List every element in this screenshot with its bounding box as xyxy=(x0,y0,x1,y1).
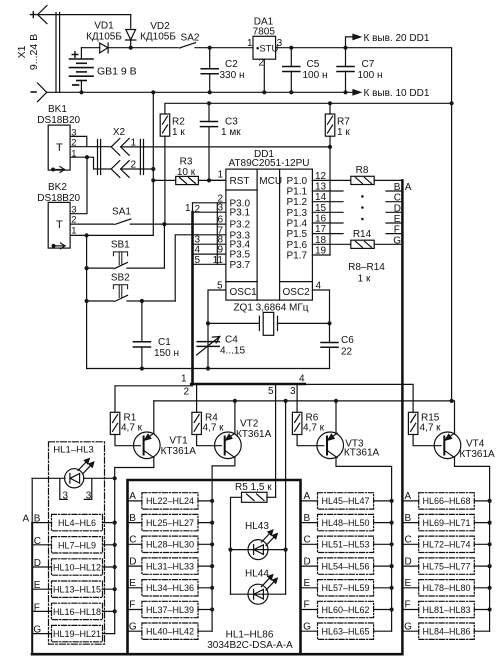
svg-text:4...15: 4...15 xyxy=(220,346,245,357)
label C5 xyxy=(303,59,328,81)
svg-text:HL60–HL62: HL60–HL62 xyxy=(321,605,369,615)
wire pin18 to R14 xyxy=(312,243,350,245)
node R7 top xyxy=(328,101,332,105)
label VD2 xyxy=(140,21,176,43)
resistor R1 xyxy=(110,412,140,445)
svg-text:A: A xyxy=(405,182,412,193)
svg-text:SB1: SB1 xyxy=(111,240,130,251)
svg-text:HL84–HL86: HL84–HL86 xyxy=(422,627,470,637)
label VD1 xyxy=(86,21,122,43)
BK1 bottom arrow xyxy=(51,167,65,173)
svg-text:HL72–HL74: HL72–HL74 xyxy=(422,540,470,550)
svg-text:HL78–HL80: HL78–HL80 xyxy=(422,583,470,593)
wire net A riser block1 xyxy=(32,477,115,479)
wire net F stub xyxy=(386,233,402,235)
svg-text:1: 1 xyxy=(185,203,191,214)
connector X2 contact 1 xyxy=(111,139,129,156)
label R7 xyxy=(337,116,350,137)
plus5V rail to emitters xyxy=(154,400,453,402)
connector X1 boundary double line xyxy=(56,13,60,93)
svg-text:C: C xyxy=(394,193,401,204)
label R1 xyxy=(121,413,143,434)
svg-text:330 н: 330 н xyxy=(220,70,245,81)
VCC rail xyxy=(165,103,452,114)
svg-text:R8–R14: R8–R14 xyxy=(348,262,385,273)
label VT2 xyxy=(236,419,272,440)
resistor R7 xyxy=(325,114,335,255)
svg-text:P1.4: P1.4 xyxy=(287,219,308,230)
node C2 bottom xyxy=(208,90,212,94)
wire 1-wire data line to X2 contact 1 xyxy=(121,146,330,148)
label DA1 xyxy=(247,17,283,69)
label block3 letters xyxy=(303,491,311,632)
wire DA1 out bus xyxy=(276,48,452,103)
block4 column dots xyxy=(488,499,492,612)
svg-text:OSC1: OSC1 xyxy=(230,287,258,298)
diode VD2 vertical xyxy=(126,30,136,48)
svg-text:HL37–HL39: HL37–HL39 xyxy=(146,605,194,615)
sensor BK2 xyxy=(48,202,70,248)
wire OSC1 lead xyxy=(208,290,226,369)
svg-text:3: 3 xyxy=(63,490,69,501)
resistor R2 xyxy=(160,114,170,224)
wire pin15 stub xyxy=(312,211,343,213)
LED HL1-HL3 lead count marks xyxy=(60,478,92,499)
switch SA2 xyxy=(131,43,210,48)
wire 2 exit down xyxy=(196,384,198,412)
svg-text:X2: X2 xyxy=(113,127,126,138)
svg-text:2: 2 xyxy=(183,387,189,398)
transistor VT3 xyxy=(317,401,392,631)
svg-text:B: B xyxy=(394,182,401,193)
label X1 9...24 V xyxy=(16,34,40,70)
VT1 collector to block1 xyxy=(115,468,154,634)
node VCC right xyxy=(450,101,454,105)
svg-text:C2: C2 xyxy=(225,59,238,70)
svg-text:КД105Б: КД105Б xyxy=(86,32,122,43)
node R7 data junction xyxy=(328,145,332,149)
svg-text:2: 2 xyxy=(71,138,76,149)
svg-text:C1: C1 xyxy=(158,337,171,348)
regulator DA1 7805 xyxy=(253,36,276,92)
svg-text:HL63–HL65: HL63–HL65 xyxy=(321,627,369,637)
battery GB1 xyxy=(70,48,94,93)
wire BK1 pin1 to X2 contact 2 xyxy=(87,157,112,169)
wire R2 drop to SB1 xyxy=(163,224,165,268)
svg-text:HL40–HL42: HL40–HL42 xyxy=(146,627,194,637)
node BK2 pin1 junction xyxy=(85,233,89,237)
svg-text:C7: C7 xyxy=(362,59,375,70)
svg-text:DS18B20: DS18B20 xyxy=(37,193,80,204)
DD1 right pin numbers xyxy=(315,171,327,292)
svg-text:7805: 7805 xyxy=(253,26,276,37)
node C1 tap xyxy=(140,299,144,303)
DD1 left pin numbers xyxy=(213,169,224,291)
svg-text:P3.2: P3.2 xyxy=(230,220,251,231)
node LED row dot xyxy=(113,476,117,480)
svg-text:К выв. 20 DD1: К выв. 20 DD1 xyxy=(364,33,430,44)
svg-text:T: T xyxy=(56,142,63,154)
svg-text:HL75–HL77: HL75–HL77 xyxy=(422,561,470,571)
svg-text:150 н: 150 н xyxy=(154,348,179,359)
capacitor C3 xyxy=(201,103,218,180)
button SB2 xyxy=(87,285,176,302)
svg-text:HL4–HL6: HL4–HL6 xyxy=(58,518,96,528)
wire pin13 stub xyxy=(312,190,343,192)
wire SA2 to DA1 xyxy=(210,47,253,49)
svg-text:R7: R7 xyxy=(337,116,350,127)
label R15 xyxy=(420,413,442,434)
rail HL right xyxy=(285,401,287,594)
switch SA1 xyxy=(70,219,226,224)
label net letters right xyxy=(393,182,412,246)
common bottom wire xyxy=(87,368,330,370)
arrow to pin 10 DD1 xyxy=(353,90,361,95)
label C2 xyxy=(220,59,245,81)
block3 row stubs xyxy=(302,501,392,631)
wire P3.1 pin3 to bus xyxy=(193,211,226,213)
node sensor gnd tap xyxy=(151,90,155,94)
svg-text:1: 1 xyxy=(131,138,137,149)
svg-text:D: D xyxy=(394,203,401,214)
svg-text:10 к: 10 к xyxy=(177,167,196,178)
capacitor C6 xyxy=(321,343,338,369)
svg-text:HL10–HL12: HL10–HL12 xyxy=(53,563,101,573)
wire pin17 stub xyxy=(312,233,343,235)
connector X2 contact 2 xyxy=(111,161,129,178)
svg-text:HL57–HL59: HL57–HL59 xyxy=(321,583,369,593)
wire 3 exit down xyxy=(296,384,298,412)
block2 column dots xyxy=(210,499,214,612)
label R3 xyxy=(177,157,196,179)
wire X2 contact 2 to gnd rail xyxy=(121,168,154,170)
resistor R3 xyxy=(153,176,226,184)
GB1 minus sign xyxy=(73,84,79,86)
svg-text:F: F xyxy=(394,225,400,236)
wire P3.7 stub 5 xyxy=(193,263,226,265)
svg-text:5: 5 xyxy=(195,255,201,266)
svg-text:5: 5 xyxy=(268,386,274,397)
svg-text:HL81–HL83: HL81–HL83 xyxy=(422,605,470,615)
svg-text:HL48–HL50: HL48–HL50 xyxy=(321,518,369,528)
svg-text:P1.1: P1.1 xyxy=(287,187,308,198)
left rail BK2 pin1 down xyxy=(86,235,88,368)
label block2 letters xyxy=(129,491,137,632)
wire net E stub xyxy=(386,222,402,224)
node R3 gnd xyxy=(151,178,155,182)
resistor R14 xyxy=(351,240,403,248)
svg-text:P1.2: P1.2 xyxy=(287,197,308,208)
wire 4 exit right xyxy=(305,384,413,412)
svg-text:R3: R3 xyxy=(180,157,193,168)
svg-text:19: 19 xyxy=(315,245,327,256)
svg-text:К выв. 10 DD1: К выв. 10 DD1 xyxy=(364,88,430,99)
svg-text:КТ361А: КТ361А xyxy=(459,449,495,460)
svg-text:6: 6 xyxy=(217,215,223,226)
svg-text:HL54–HL56: HL54–HL56 xyxy=(321,561,369,571)
diode VD1 xyxy=(82,43,131,53)
svg-text:R8: R8 xyxy=(356,165,369,176)
DD1 left pin cell line xyxy=(216,203,218,264)
wire net B stub xyxy=(386,190,402,192)
svg-text:MCU: MCU xyxy=(259,176,282,187)
resistor R5 xyxy=(231,492,276,594)
node SB1 left xyxy=(85,266,89,270)
block1 column dots xyxy=(113,521,117,614)
svg-text:HL66–HL68: HL66–HL68 xyxy=(422,496,470,506)
X1 minus sign xyxy=(31,91,36,93)
svg-text:P3.7: P3.7 xyxy=(230,260,251,271)
GND bus xyxy=(47,91,355,93)
wire pin16 stub xyxy=(312,222,343,224)
svg-text:3034B2C-DSA-A-A: 3034B2C-DSA-A-A xyxy=(207,640,293,651)
wire P3.4 stub 3 xyxy=(193,243,226,245)
label R4 xyxy=(203,413,225,434)
wire P3.5 stub 4 xyxy=(193,253,226,255)
svg-text:A: A xyxy=(23,513,30,524)
node C7 bottom xyxy=(343,90,347,94)
svg-text:SA2: SA2 xyxy=(181,33,200,44)
node SA1 pullup xyxy=(162,222,166,226)
svg-text:КТ361А: КТ361А xyxy=(236,429,272,440)
crystal ZQ1 xyxy=(208,312,330,335)
svg-text:1 к: 1 к xyxy=(358,274,371,285)
wire net D stub xyxy=(386,211,402,213)
svg-text:1: 1 xyxy=(181,374,187,385)
svg-text:1 к: 1 к xyxy=(172,127,185,138)
svg-text:100 н: 100 н xyxy=(303,70,328,81)
node HL43 right xyxy=(284,548,288,552)
resistor R15 xyxy=(408,412,441,445)
connector X1 contact minus xyxy=(38,83,47,102)
svg-text:R14: R14 xyxy=(353,229,372,240)
node crystal left xyxy=(206,321,210,325)
svg-text:HL13–HL15: HL13–HL15 xyxy=(53,585,101,595)
wire pin14 stub xyxy=(312,201,343,203)
label C7 xyxy=(358,59,383,81)
wire top feed to VD2 xyxy=(130,15,132,28)
svg-text:BK2: BK2 xyxy=(48,182,67,193)
transistor VT4 xyxy=(434,401,489,631)
svg-text:2: 2 xyxy=(195,204,201,215)
label DD1 P3 column xyxy=(230,198,251,270)
transistor VT1 xyxy=(134,401,161,468)
arrow to pin 20 DD1 xyxy=(346,34,361,47)
block2 row stubs xyxy=(129,501,212,631)
svg-text:SB2: SB2 xyxy=(111,273,130,284)
capacitor C5 xyxy=(283,48,300,93)
node RST junction xyxy=(207,178,211,182)
svg-text:HL44: HL44 xyxy=(245,569,269,580)
svg-text:AT89C2051-12PU: AT89C2051-12PU xyxy=(229,158,310,169)
label BK2 xyxy=(37,182,80,236)
wire +5V drop right side xyxy=(451,103,453,401)
connector X1 contact plus xyxy=(38,6,131,24)
bundle bottom line xyxy=(32,653,402,656)
label VT4 xyxy=(459,439,495,460)
svg-text:4,7 к: 4,7 к xyxy=(303,423,325,434)
svg-text:VD2: VD2 xyxy=(150,21,170,32)
label wire1 wire2 top xyxy=(185,203,201,215)
svg-text:•STU: •STU xyxy=(256,43,278,54)
resistor R8 xyxy=(351,176,403,184)
svg-text:HL28–HL30: HL28–HL30 xyxy=(146,540,194,550)
svg-text:P1.5: P1.5 xyxy=(287,229,308,240)
label HL1-HL86 type xyxy=(207,630,293,652)
label C3 xyxy=(221,117,241,138)
node C5 bottom xyxy=(289,90,293,94)
wire 5 exit down xyxy=(275,384,277,497)
svg-text:4: 4 xyxy=(299,374,305,385)
svg-text:P1.7: P1.7 xyxy=(287,251,308,262)
capacitor C1 xyxy=(133,301,150,369)
svg-text:HL34–HL36: HL34–HL36 xyxy=(146,583,194,593)
block1 rows xyxy=(52,514,103,641)
block2 rows xyxy=(142,493,198,640)
block3 column dots xyxy=(390,499,394,612)
svg-text:SA1: SA1 xyxy=(112,206,131,217)
svg-text:E: E xyxy=(394,214,401,225)
transistor VT2 xyxy=(212,401,241,631)
svg-text:1: 1 xyxy=(247,38,253,49)
node SB2 left xyxy=(85,299,89,303)
svg-text:R5 1,5 к: R5 1,5 к xyxy=(235,482,272,493)
label C1 xyxy=(154,337,179,359)
svg-text:G: G xyxy=(393,235,401,246)
svg-text:1: 1 xyxy=(71,225,76,236)
svg-text:OSC2: OSC2 xyxy=(283,287,311,298)
svg-text:КТ361А: КТ361А xyxy=(161,446,197,457)
node GB1 minus xyxy=(79,90,83,94)
label C4 xyxy=(220,335,245,357)
svg-text:P1.3: P1.3 xyxy=(287,208,308,219)
svg-text:HL43: HL43 xyxy=(245,521,269,532)
label DD1 xyxy=(229,149,311,298)
svg-text:HL19–HL21: HL19–HL21 xyxy=(53,629,101,639)
svg-text:HL7–HL9: HL7–HL9 xyxy=(58,540,96,550)
svg-text:КД105Б: КД105Б xyxy=(140,32,176,43)
wire P1.0 pin12 to R8 xyxy=(312,179,350,181)
node contact2 gnd xyxy=(151,167,155,171)
label block4 letters xyxy=(404,491,412,632)
svg-text:HL31–HL33: HL31–HL33 xyxy=(146,561,194,571)
svg-text:RST: RST xyxy=(230,176,250,187)
label R6 xyxy=(303,413,325,434)
node VT3 emitter xyxy=(334,399,338,403)
label block1 letters A B xyxy=(23,513,42,635)
MCU DD1 box xyxy=(226,169,313,300)
label VT1 xyxy=(161,436,197,457)
label VT3 xyxy=(344,438,380,458)
svg-text:22: 22 xyxy=(341,347,353,358)
label C6 xyxy=(341,335,354,358)
node HL43 left xyxy=(228,548,232,552)
MCU group bus vertical xyxy=(192,203,194,212)
node DA1 pin2 gnd xyxy=(262,90,266,94)
sensor BK1 xyxy=(48,125,111,170)
node BK1 pin1 junction xyxy=(85,155,89,159)
resistor R4 xyxy=(192,412,222,445)
svg-text:3: 3 xyxy=(290,386,296,397)
svg-text:HL51–HL53: HL51–HL53 xyxy=(321,540,369,550)
wire pin19 stub xyxy=(312,254,330,256)
node C1 bottom xyxy=(140,366,144,370)
svg-text:C6: C6 xyxy=(341,335,354,346)
svg-text:HL25–HL27: HL25–HL27 xyxy=(146,518,194,528)
svg-text:R2: R2 xyxy=(172,116,185,127)
node VD1-VD2 junction xyxy=(129,46,133,50)
svg-text:HL16–HL18: HL16–HL18 xyxy=(53,607,101,617)
svg-text:DS18B20: DS18B20 xyxy=(37,115,80,126)
connector X2 boundary lines xyxy=(98,140,144,175)
capacitor C4 variable xyxy=(197,337,220,356)
block4 rows xyxy=(419,493,475,640)
LED HL1-HL3 xyxy=(65,459,94,488)
node C2 top xyxy=(208,46,212,50)
svg-text:HL1–HL86: HL1–HL86 xyxy=(226,630,274,641)
block4 row stubs xyxy=(403,501,489,631)
svg-text:1 мк: 1 мк xyxy=(221,127,241,138)
resistor R6 xyxy=(292,412,323,445)
dots omitted resistors xyxy=(361,195,364,220)
wire 1 exit left xyxy=(115,386,193,413)
MCU group bus horizontal xyxy=(191,383,305,386)
svg-text:100 н: 100 н xyxy=(358,70,383,81)
node +5V feed xyxy=(450,399,454,403)
svg-text:BK1: BK1 xyxy=(48,104,67,115)
node C3 top xyxy=(207,101,211,105)
label DD1 P1 column xyxy=(287,176,308,262)
wire BK1 pin1 down to BK2 pin3 xyxy=(70,157,87,214)
wire P3.0 pin2 to bus xyxy=(193,202,226,204)
svg-text:HL22–HL24: HL22–HL24 xyxy=(146,496,194,506)
svg-text:1 к: 1 к xyxy=(337,127,350,138)
svg-text:VD1: VD1 xyxy=(94,21,114,32)
LED HL43 xyxy=(231,530,286,560)
svg-text:4,7 к: 4,7 к xyxy=(203,423,225,434)
wire net C stub xyxy=(386,201,402,203)
capacitor C7 xyxy=(337,48,354,93)
gnd rail vertical xyxy=(70,92,153,235)
node crystal right xyxy=(327,321,331,325)
button SB1 xyxy=(87,252,165,269)
svg-text:КТ361А: КТ361А xyxy=(344,448,380,459)
svg-text:1: 1 xyxy=(71,148,76,159)
svg-text:ZQ1 3,6864 МГц: ZQ1 3,6864 МГц xyxy=(233,302,308,313)
svg-text:C4: C4 xyxy=(225,335,238,346)
svg-text:T: T xyxy=(56,219,63,231)
node C4 bottom xyxy=(206,366,210,370)
BK2 bottom arrow xyxy=(52,243,66,249)
svg-text:P3.1: P3.1 xyxy=(230,208,251,219)
svg-text:2: 2 xyxy=(259,58,265,69)
node C5 top xyxy=(289,46,293,50)
svg-text:1: 1 xyxy=(217,169,223,180)
node C7 top xyxy=(343,46,347,50)
block2 thick border xyxy=(128,480,301,654)
node R5 rail xyxy=(284,399,288,403)
svg-text:4,7 к: 4,7 к xyxy=(420,423,442,434)
label R8-R14 xyxy=(348,262,385,285)
svg-text:HL69–HL71: HL69–HL71 xyxy=(422,518,470,528)
svg-text:VT2: VT2 xyxy=(240,419,259,430)
label BK1 xyxy=(37,104,80,159)
label R2 xyxy=(172,116,185,137)
svg-text:4,7 к: 4,7 к xyxy=(121,423,143,434)
X1 plus sign xyxy=(31,12,37,18)
block1 outline xyxy=(49,442,105,644)
net A bus vertical xyxy=(401,180,404,654)
